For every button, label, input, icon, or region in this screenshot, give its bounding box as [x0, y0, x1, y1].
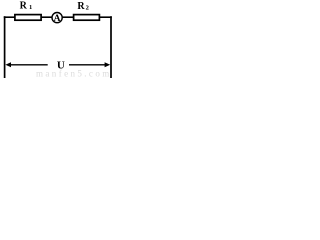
wire right vertical — [110, 16, 112, 78]
svg-text:R: R — [20, 1, 28, 12]
wire ammeter to R2 — [62, 16, 74, 18]
svg-text:A: A — [54, 14, 61, 24]
svg-text:1: 1 — [29, 4, 32, 11]
wire left vertical — [4, 16, 6, 78]
dimension arrow left (U span) — [9, 64, 48, 66]
wire R1 to ammeter — [42, 16, 53, 18]
svg-text:manfen5.com: manfen5.com — [36, 69, 112, 79]
resistor R1 — [15, 15, 41, 21]
wire top-left horizontal — [4, 16, 15, 18]
wire R2 to right corner — [99, 16, 112, 18]
dimension arrow right (U span) — [69, 64, 107, 66]
resistor R2 — [74, 15, 100, 21]
svg-text:2: 2 — [86, 5, 89, 12]
svg-text:R: R — [77, 1, 85, 12]
ammeter A — [52, 13, 62, 23]
